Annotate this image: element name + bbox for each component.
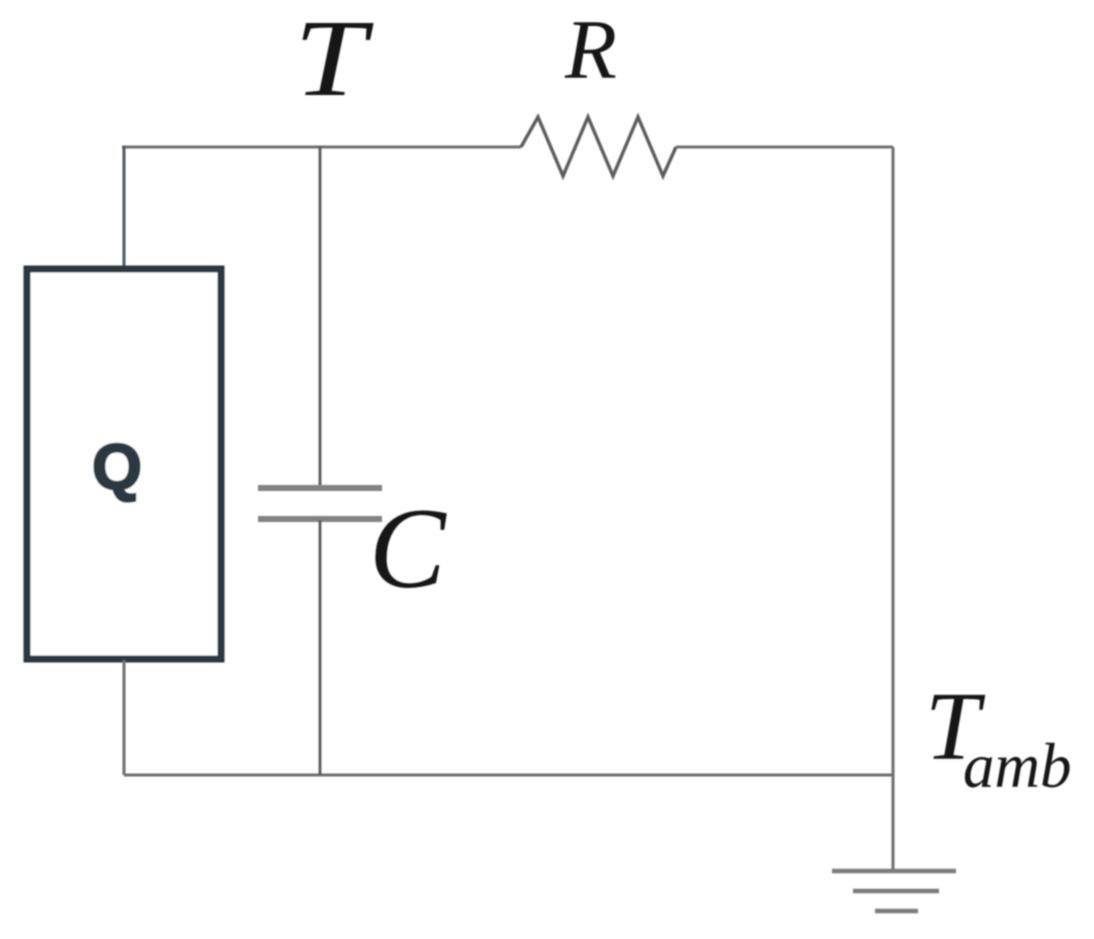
wire: drop from Q box bottom to bottom rail [123,660,126,775]
svg-text:R: R [564,3,617,97]
wire: capacitor lower lead to bottom rail [319,520,322,775]
capacitor C bottom plate [258,516,382,522]
ground symbol [832,871,956,911]
wire: top horizontal right segment [676,146,893,149]
wire: left drop from top rail to Q box [123,146,126,268]
svg-text:amb: amb [963,731,1072,801]
capacitor C top plate [258,485,382,491]
svg-text:C: C [369,485,447,612]
wire: right vertical (R to ground) [892,147,895,869]
resistor R [521,117,676,176]
svg-text:Q: Q [92,431,142,503]
wire: bottom horizontal rail (Tamb rail) [124,774,893,777]
svg-text:T: T [294,0,374,119]
wire: node T vertical branch (top) [319,147,322,487]
heat source Q (box) [27,269,221,659]
wire: top horizontal left segment (node T rail) [122,146,521,149]
